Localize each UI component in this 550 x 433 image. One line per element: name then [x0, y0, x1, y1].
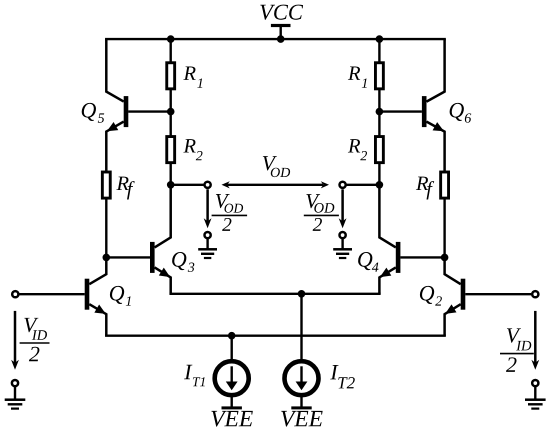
transistor Q4: [379, 185, 400, 294]
wire VOD node to terminal left: [171, 184, 205, 186]
wire rail to R1 right: [378, 39, 380, 64]
node VOD left junction: [167, 181, 175, 189]
VOD/2 fraction right: [304, 194, 339, 231]
VEE label right: [281, 411, 322, 427]
VCC label: [260, 5, 303, 20]
wire junction to IT1: [230, 336, 232, 360]
node input terminal left (open): [12, 291, 18, 297]
wire Q5 base: [128, 110, 171, 112]
VID/2 arrow right: [531, 311, 539, 370]
wire R2 to VOD node left: [169, 163, 171, 185]
wire Rf to Q2 collector node: [443, 198, 445, 257]
wire R1 to R2 left: [169, 88, 171, 137]
Q1 label: [110, 286, 131, 306]
Q5 label: [82, 103, 104, 123]
VOD label: [263, 156, 290, 177]
wire VOD node to terminal right: [346, 184, 380, 186]
VEE terminal bar right: [291, 406, 311, 409]
resistor Rf right: [441, 172, 449, 198]
wire Q1-Q2 emitter rail: [105, 335, 446, 337]
ground VID right: [525, 380, 546, 410]
wire Q1 base: [19, 293, 84, 295]
IT2 label: [330, 365, 355, 388]
node top-rail/R1-left junction: [167, 35, 175, 43]
node Q1-collector/Q3-base junction: [103, 254, 111, 262]
VID/2 fraction left: [20, 318, 50, 361]
node VOD terminal left (open): [205, 182, 211, 188]
ground VID left: [5, 380, 26, 410]
Q3 label: [172, 252, 194, 272]
VOD/2 arrow right: [339, 189, 347, 228]
node VCC tap junction: [277, 35, 285, 43]
resistor R1 left: [167, 63, 175, 89]
node R1/R2/Q5-base junction: [167, 108, 175, 116]
VID/2 fraction right: [500, 328, 534, 372]
wire rail to R1 left: [169, 39, 171, 64]
resistor R2 left: [167, 137, 175, 163]
ground VOD left: [198, 232, 217, 259]
wire R2 to VOD node right: [378, 163, 380, 185]
transistor Q5: [106, 39, 128, 171]
node emitter-rail/IT2 junction: [298, 290, 306, 298]
Rf left label: [116, 177, 134, 200]
ground VOD right: [333, 232, 352, 259]
transistor Q3: [150, 185, 171, 294]
transistor Q1: [85, 257, 107, 335]
node VOD terminal right (open): [340, 182, 346, 188]
resistor Rf left: [102, 172, 110, 198]
Rf right label: [416, 177, 434, 200]
node VOD right junction: [376, 181, 384, 189]
VOD/2 fraction left: [212, 194, 248, 231]
wire Rf to Q1 collector node: [105, 198, 107, 257]
VOD differential double arrow: [222, 181, 330, 188]
VCC supply symbol: [271, 24, 291, 39]
wire IT2 to VEE: [300, 397, 302, 407]
R1 right label: [348, 66, 367, 87]
VOD/2 arrow left: [204, 189, 212, 228]
wire Q3-Q4 emitter rail: [169, 293, 380, 295]
VEE terminal bar left: [222, 406, 242, 409]
wire Q6 base: [379, 110, 422, 112]
wire top VCC rail: [105, 38, 446, 40]
transistor Q2: [445, 257, 466, 335]
R2 right label: [348, 139, 367, 160]
Q4 label: [358, 252, 378, 272]
wire junction to IT2: [300, 294, 302, 360]
transistor Q6: [422, 39, 445, 171]
wire Q2 base: [465, 293, 531, 295]
node R1/R2/Q6-base junction: [376, 108, 384, 116]
R2 left label: [183, 139, 202, 160]
node Q2-collector/Q4-base junction: [441, 254, 449, 262]
node input terminal right (open): [532, 291, 538, 297]
Q6 label: [450, 103, 472, 123]
VID/2 arrow left: [11, 311, 19, 370]
wire Q4 base: [400, 256, 444, 258]
Q2 label: [420, 286, 442, 306]
VEE label left: [211, 411, 252, 427]
node emitter-rail/IT1 junction: [228, 332, 236, 340]
current source IT2: [285, 361, 319, 395]
R1 left label: [183, 66, 202, 87]
wire Q3 base: [106, 256, 150, 258]
wire R1 to R2 right: [378, 88, 380, 137]
IT1 label: [184, 365, 205, 386]
resistor R2 right: [375, 137, 383, 163]
resistor R1 right: [375, 63, 383, 89]
node top-rail/R1-right junction: [376, 35, 384, 43]
current source IT1: [215, 361, 249, 395]
wire IT1 to VEE: [230, 397, 232, 407]
